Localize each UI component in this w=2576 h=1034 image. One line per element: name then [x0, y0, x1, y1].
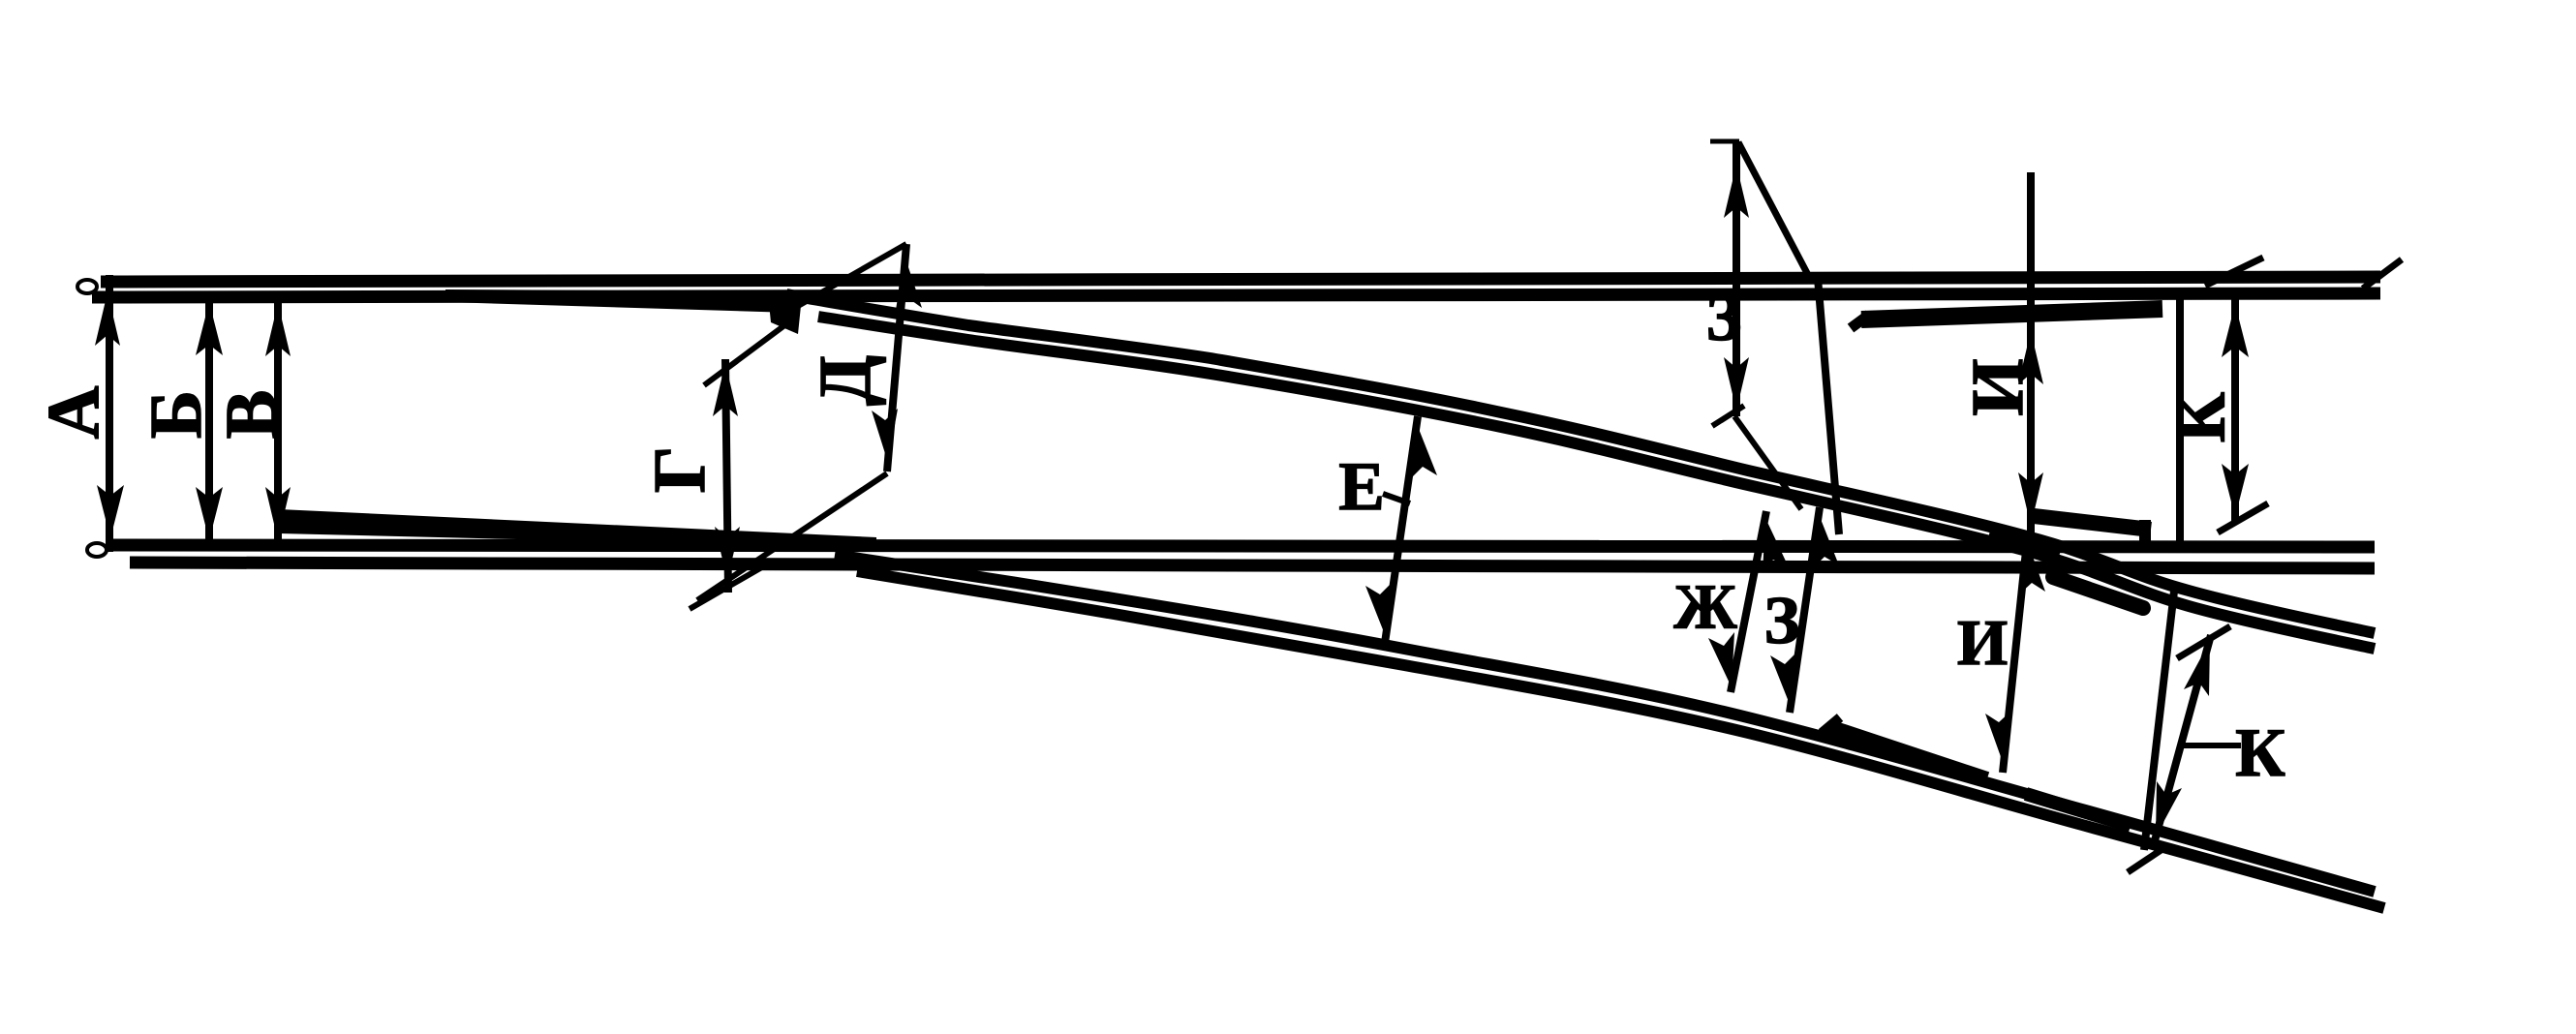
- frog wing bar, straight track right of crossing: [2034, 516, 2151, 541]
- label E: [1338, 449, 1384, 525]
- dimension line Z lower: [1770, 507, 1839, 713]
- label V: [211, 390, 292, 440]
- svg-text:Ж: Ж: [1673, 571, 1737, 642]
- extension line Zh: [1818, 278, 1839, 534]
- bottom switch blade wedge: [279, 509, 876, 548]
- dimension line D: [697, 244, 922, 600]
- dimension line I upper: [2018, 172, 2043, 540]
- guard rail bar, diverging track left segment: [1822, 717, 1987, 778]
- top switch blade wedge: [445, 289, 792, 313]
- dimension line G: [690, 320, 791, 609]
- svg-text:В: В: [211, 390, 292, 440]
- label Z upper: [1706, 281, 1742, 355]
- oblique tick at top rail right end: [2363, 259, 2402, 289]
- svg-text:К: К: [2235, 715, 2285, 791]
- diverging track upper rail, lower line: [818, 317, 2375, 649]
- top rail of straight track, upper line: [77, 277, 2380, 293]
- svg-text:Г: Г: [639, 446, 721, 493]
- dimension line A: [95, 275, 124, 552]
- frog wing bar, diverging right of crossing: [2053, 577, 2143, 608]
- svg-text:И: И: [1957, 358, 2039, 415]
- label I lower: [1957, 607, 2008, 679]
- dimension line Z upper: [1710, 141, 1808, 509]
- label B: [136, 390, 217, 439]
- svg-text:Д: Д: [805, 355, 886, 406]
- label Z lower: [1764, 584, 1800, 658]
- label K lower: [2235, 715, 2285, 791]
- label A: [33, 385, 114, 439]
- dimension line K lower: [2128, 583, 2241, 872]
- svg-text:К: К: [2162, 392, 2239, 442]
- bottom rail of straight track, upper line: [87, 543, 2375, 557]
- dimension line B: [196, 296, 223, 548]
- label G: [639, 446, 721, 493]
- label D: [805, 355, 886, 406]
- frog point blob: [1987, 531, 2061, 563]
- svg-text:Б: Б: [136, 390, 217, 439]
- diverging track upper rail, upper line: [786, 294, 2375, 633]
- label K upper: [2162, 392, 2239, 442]
- svg-text:З: З: [1764, 584, 1800, 658]
- dimension line V: [265, 297, 291, 548]
- dimension line I lower: [1985, 532, 2045, 773]
- guard rail bar, diverging track right segment: [2026, 794, 2131, 826]
- svg-text:И: И: [1957, 607, 2008, 679]
- top rail of straight track, lower line: [92, 293, 2380, 297]
- label Zh: [1673, 571, 1737, 642]
- dimension line E: [1365, 416, 1437, 643]
- switch heel junction knot: [768, 293, 802, 334]
- dimension line K upper: [2180, 258, 2268, 544]
- svg-text:А: А: [33, 385, 114, 439]
- guard rail bar, top straight rail: [1851, 309, 2162, 328]
- diverging track lower rail, upper line: [835, 555, 2375, 892]
- svg-text:Е: Е: [1338, 449, 1384, 525]
- bottom rail of straight track, lower line: [130, 563, 2375, 568]
- svg-text:З: З: [1706, 281, 1742, 355]
- label I upper: [1957, 358, 2039, 415]
- diverging track lower rail, lower line: [857, 571, 2384, 908]
- dimension line Zh: [1708, 511, 1789, 692]
